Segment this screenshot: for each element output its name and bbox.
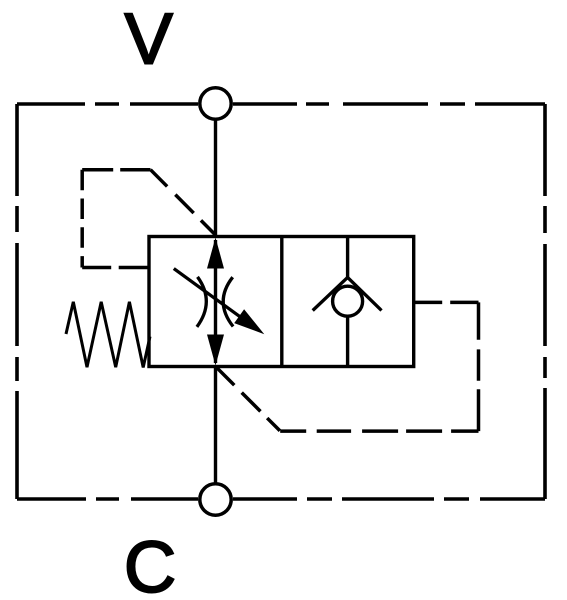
enclosure boundary top-left segment [17, 102, 198, 106]
enclosure boundary left segment [15, 104, 19, 499]
restrictor left arc [197, 277, 206, 327]
flow path shaft [214, 240, 217, 363]
check valve outlet line [346, 317, 349, 367]
check valve ball [333, 286, 363, 316]
flow arrowhead up [207, 238, 224, 269]
enclosure boundary right segment [543, 104, 547, 499]
wire V port to valve [214, 119, 217, 237]
pilot diagonal to valve top [151, 170, 216, 235]
enclosure boundary top-right segment [233, 102, 545, 106]
check valve seat chevron [313, 277, 382, 310]
adjustment arrow line [174, 269, 241, 318]
adjustment arrowhead [234, 309, 264, 334]
enclosure boundary bottom-right segment [233, 497, 545, 501]
valve body divider [280, 237, 283, 367]
pilot box left line [80, 170, 84, 268]
pilot stub to valve right [414, 301, 479, 305]
enclosure boundary bottom-left segment [17, 497, 198, 501]
pilot diagonal from valve bottom [216, 367, 280, 431]
check valve inlet line [346, 237, 349, 280]
pilot bottom run [280, 429, 478, 433]
flow arrowhead down [207, 335, 224, 366]
port C circle [200, 484, 231, 515]
spring [66, 302, 150, 368]
svg-text:V: V [125, 0, 174, 80]
valve body [149, 237, 414, 367]
pilot box bottom line [82, 266, 151, 270]
pilot box top line [82, 168, 150, 172]
wire valve to C port [214, 366, 217, 484]
svg-text:C: C [124, 527, 176, 600]
port V circle [200, 88, 231, 119]
pilot right riser [477, 302, 481, 431]
restrictor right arc [223, 277, 233, 326]
